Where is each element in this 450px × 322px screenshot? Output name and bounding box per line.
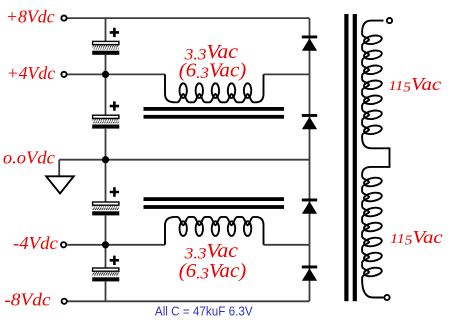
svg-text:(6.3Vac): (6.3Vac) [179,60,247,83]
svg-text:(6.3Vac): (6.3Vac) [179,260,247,283]
svg-text:115Vac: 115Vac [389,74,442,95]
svg-text:o.oVdc: o.oVdc [3,148,55,168]
svg-text:+8Vdc: +8Vdc [6,7,55,27]
svg-text:-8Vdc: -8Vdc [4,289,51,309]
svg-text:-4Vdc: -4Vdc [13,233,58,253]
svg-text:All C = 47kuF 6.3V: All C = 47kuF 6.3V [155,304,253,319]
svg-text:115Vac: 115Vac [390,227,443,248]
svg-text:+4Vdc: +4Vdc [7,63,56,83]
